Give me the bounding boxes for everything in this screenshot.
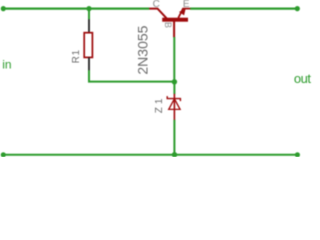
wire top-left (in rail) — [3, 8, 149, 10]
svg-text:R1: R1 — [71, 49, 82, 63]
node junction dot base node — [172, 79, 177, 84]
wire top-right (out rail) — [190, 8, 297, 10]
node junction dot top-left — [1, 6, 6, 11]
svg-text:Z1: Z1 — [154, 96, 165, 114]
resistor R1 — [84, 19, 92, 70]
wire node to zener top — [173, 82, 175, 94]
transistor Q1 emitter pin — [178, 9, 190, 18]
zener diode Z1 — [167, 94, 180, 120]
svg-text:B: B — [163, 22, 173, 28]
wire zener bottom to ground rail — [173, 120, 175, 155]
transistor base pin lead — [173, 21, 175, 37]
wire from R1 bottom to zener node — [89, 70, 174, 81]
wire R1 top stub — [88, 9, 90, 20]
node junction dot bottom-left — [1, 152, 6, 157]
svg-text:2N3055: 2N3055 — [134, 25, 150, 74]
svg-text:out: out — [294, 71, 311, 86]
node junction dot bottom-right — [295, 152, 300, 157]
node junction dot at R1 top — [86, 6, 91, 11]
wire bottom rail — [3, 154, 297, 156]
node junction dot zener bottom — [172, 152, 177, 157]
transistor Q1 2N3055 collector pin — [149, 9, 166, 19]
transistor base bar — [162, 18, 188, 22]
wire base down to node — [173, 37, 175, 82]
svg-text:in: in — [2, 58, 11, 72]
node junction dot top-right — [295, 6, 300, 11]
transistor emitter arrow — [179, 9, 186, 16]
